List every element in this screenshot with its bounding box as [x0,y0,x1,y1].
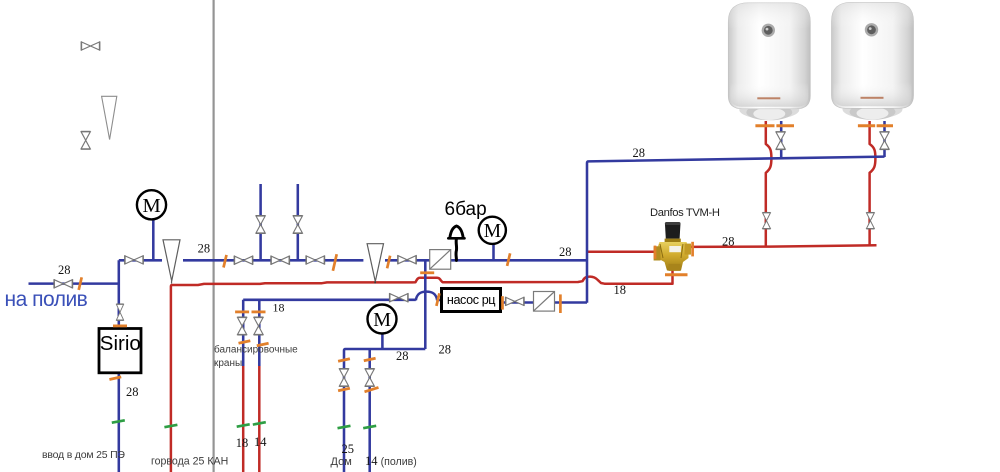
svg-text:ввод в дом 25 ПЭ: ввод в дом 25 ПЭ [42,449,125,461]
svg-text:Sirio: Sirio [100,332,141,355]
svg-text:M: M [484,221,501,242]
svg-text:6бар: 6бар [445,199,487,220]
svg-text:14 (полив): 14 (полив) [365,454,417,468]
svg-text:18: 18 [236,436,249,450]
svg-text:25: 25 [342,442,355,456]
svg-text:на полив: на полив [5,288,88,311]
svg-text:краны: краны [214,358,242,369]
svg-text:балансировочные: балансировочные [214,344,298,356]
svg-text:28: 28 [198,242,211,256]
svg-text:28: 28 [722,234,735,248]
svg-text:Дом: Дом [331,456,352,468]
svg-text:28: 28 [559,245,572,259]
svg-text:14: 14 [254,435,267,449]
svg-text:18: 18 [614,283,627,297]
svg-text:M: M [373,309,391,331]
svg-text:28: 28 [126,385,139,399]
svg-text:28: 28 [439,343,452,357]
svg-text:M: M [142,195,160,217]
svg-text:28: 28 [396,349,409,363]
svg-text:горвода 25 КАН: горвода 25 КАН [151,456,228,468]
svg-text:18: 18 [273,301,285,315]
svg-text:28: 28 [58,263,71,277]
svg-text:Danfos TVM-H: Danfos TVM-H [650,207,720,219]
svg-text:насос рц: насос рц [447,293,495,307]
svg-text:28: 28 [633,146,646,160]
